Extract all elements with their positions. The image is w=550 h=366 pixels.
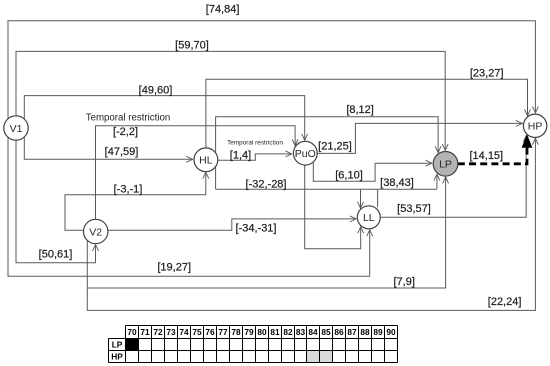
wire V2 to LP [7,9] <box>87 177 445 288</box>
svg-text:74: 74 <box>179 327 189 337</box>
svg-text:[47,59]: [47,59] <box>105 146 139 158</box>
svg-text:[50,61]: [50,61] <box>39 249 73 261</box>
svg-text:[38,43]: [38,43] <box>380 177 414 189</box>
wire V2 to LL [-34,-31] <box>96 219 357 230</box>
wire V2 to HL [-3,-1] <box>65 172 206 230</box>
svg-text:87: 87 <box>347 327 357 337</box>
wire PuO to LL <box>305 165 361 249</box>
table grid <box>109 326 398 363</box>
table filled cell LP 70 (black) <box>126 339 138 350</box>
svg-text:83: 83 <box>296 327 306 337</box>
svg-text:77: 77 <box>218 327 228 337</box>
svg-text:[14,15]: [14,15] <box>469 150 503 162</box>
svg-text:LP: LP <box>112 340 123 350</box>
svg-text:79: 79 <box>244 327 254 337</box>
svg-text:[74,84]: [74,84] <box>206 3 240 15</box>
node V1 <box>4 116 28 140</box>
svg-text:[-32,-28]: [-32,-28] <box>246 179 287 191</box>
svg-text:PuO: PuO <box>295 148 316 160</box>
svg-text:[59,70]: [59,70] <box>175 39 209 51</box>
wire PuO to LP [6,10] <box>313 162 432 181</box>
svg-text:[-2,2]: [-2,2] <box>113 126 138 138</box>
svg-text:HP: HP <box>528 121 543 133</box>
node HL <box>194 148 218 172</box>
node V2 <box>84 219 108 243</box>
svg-text:73: 73 <box>166 327 176 337</box>
svg-text:88: 88 <box>360 327 370 337</box>
wire V1 to LP [59,70] <box>16 51 445 150</box>
svg-text:75: 75 <box>192 327 202 337</box>
node PuO <box>293 141 317 165</box>
svg-text:[49,60]: [49,60] <box>139 84 173 96</box>
wire HL to PuO [1,4] <box>218 154 292 160</box>
svg-text:70: 70 <box>127 327 137 337</box>
svg-text:[-34,-31]: [-34,-31] <box>236 222 277 234</box>
svg-text:89: 89 <box>373 327 383 337</box>
wire HL to LP [8,12] <box>216 117 439 189</box>
svg-text:[6,10]: [6,10] <box>335 169 363 181</box>
svg-text:84: 84 <box>308 327 318 337</box>
wire V1 to HL [47,59] <box>24 128 192 159</box>
svg-text:82: 82 <box>283 327 293 337</box>
svg-text:72: 72 <box>153 327 163 337</box>
svg-text:85: 85 <box>321 327 331 337</box>
svg-text:[22,24]: [22,24] <box>488 296 522 308</box>
svg-text:90: 90 <box>386 327 396 337</box>
wire HL to HP [23,27] <box>206 79 528 148</box>
svg-text:[8,12]: [8,12] <box>346 104 374 116</box>
wire V1 to PuO [49,60] <box>24 96 304 141</box>
svg-text:[1,4]: [1,4] <box>230 150 251 162</box>
svg-text:Temporal restriction: Temporal restriction <box>86 112 171 123</box>
wire PuO to HP [21,25] <box>317 123 522 153</box>
svg-text:[-3,-1]: [-3,-1] <box>114 184 143 196</box>
table header numbers <box>111 327 396 361</box>
svg-text:86: 86 <box>334 327 344 337</box>
svg-text:V2: V2 <box>89 226 102 238</box>
timeline table <box>109 326 398 363</box>
wire branch into LP bottom-left [38,43] <box>436 174 438 189</box>
wire V1 to LL [19,27] <box>8 128 370 276</box>
node LP <box>433 152 458 177</box>
svg-text:76: 76 <box>205 327 215 337</box>
svg-text:V1: V1 <box>10 123 23 135</box>
svg-text:71: 71 <box>140 327 150 337</box>
wire LL top-right riser [38,43] <box>377 189 379 207</box>
svg-text:[21,25]: [21,25] <box>318 140 352 152</box>
table filled cells HP 84-85 (gray) <box>307 351 332 362</box>
svg-text:Temporal restriction: Temporal restriction <box>227 139 283 146</box>
wire bus HL-LL-LP horizontal [-32,-28]/[38,43] <box>216 188 437 190</box>
svg-text:81: 81 <box>270 327 280 337</box>
wire V1 to V2 [50,61] <box>16 128 96 263</box>
wire V2 to HP [22,24] <box>87 138 535 310</box>
wire V1 to HP [74,84] <box>8 21 535 128</box>
wire branch into LL top [-32,-28] <box>360 189 362 208</box>
svg-text:[23,27]: [23,27] <box>470 67 504 79</box>
node LL <box>357 206 380 229</box>
svg-text:[53,57]: [53,57] <box>397 203 431 215</box>
svg-text:LL: LL <box>363 212 375 224</box>
svg-text:HP: HP <box>111 352 123 362</box>
wire V2 to PuO temporal [-2,2] <box>96 126 296 220</box>
edge LP to HP dashed [14,15] <box>458 134 533 164</box>
node HP <box>523 114 546 137</box>
svg-text:LP: LP <box>439 159 452 171</box>
wire LL to HP [53,57] <box>380 136 526 218</box>
svg-text:[19,27]: [19,27] <box>157 262 191 274</box>
svg-text:80: 80 <box>257 327 267 337</box>
svg-text:HL: HL <box>199 155 213 167</box>
svg-text:[7,9]: [7,9] <box>393 276 414 288</box>
svg-text:78: 78 <box>231 327 241 337</box>
